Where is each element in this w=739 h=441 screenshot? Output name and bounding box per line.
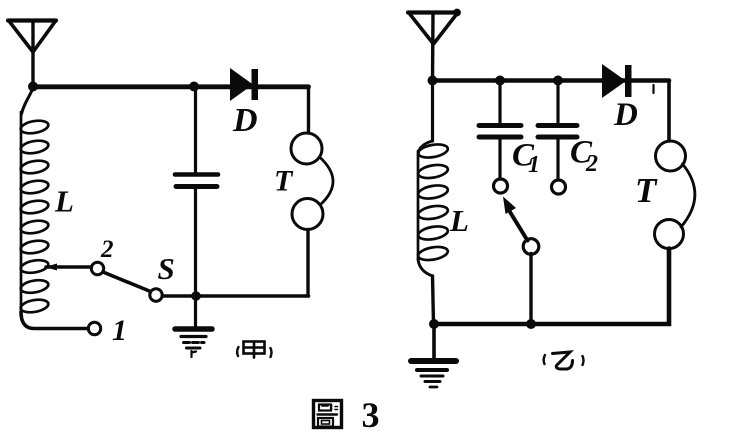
wire (selector pivot to bottom rail)	[529, 254, 532, 325]
label (甲)	[237, 342, 271, 358]
wire (headphones to bottom rail, right)	[434, 249, 669, 325]
node (C1 branch junction)	[495, 76, 505, 86]
svg-text:2: 2	[585, 151, 598, 177]
selector contact for C2	[552, 180, 566, 194]
ground (right)	[411, 361, 456, 387]
node (ground junction, right)	[429, 319, 439, 329]
label (乙)	[544, 352, 584, 369]
node (antenna/coil junction, right)	[428, 76, 438, 86]
wire (coil bottom to terminal 1)	[21, 312, 88, 329]
selector switch pivot (right)	[523, 239, 539, 255]
svg-text:3: 3	[362, 395, 380, 435]
switch S pivot contact	[150, 289, 162, 301]
wire (top rail down to C2)	[556, 81, 559, 123]
headphones T (right)	[655, 141, 695, 249]
label C1	[512, 138, 540, 179]
diode D (left)	[230, 68, 258, 101]
switch S contact 2	[91, 262, 103, 274]
label C2	[570, 135, 598, 178]
wire (headphones to bottom rail, left)	[306, 230, 309, 297]
svg-text:D: D	[613, 97, 638, 133]
headphones T (left)	[291, 133, 333, 230]
inductor L (right)	[417, 81, 449, 324]
node (antenna/coil junction)	[28, 82, 38, 92]
svg-text:D: D	[232, 102, 258, 139]
selector contact for C1	[494, 179, 508, 193]
inductor L (left)	[20, 88, 50, 314]
selector switch arm (right)	[503, 197, 528, 241]
capacitor C2	[538, 126, 577, 138]
antenna (left)	[8, 21, 56, 88]
wire (top rail down to C1)	[498, 81, 501, 123]
wire (top rail, left circuit)	[33, 84, 309, 89]
svg-text:2: 2	[100, 236, 114, 263]
wire (coil tap to switch contact 2)	[45, 264, 91, 271]
switch S arm	[103, 272, 151, 292]
terminal 1 (open contact)	[88, 322, 100, 334]
diode D (right)	[602, 64, 632, 98]
wire (diode to headphones, right top corner)	[654, 81, 670, 142]
antenna (right)	[408, 9, 460, 81]
wire (top rail, right circuit)	[432, 78, 669, 83]
node (C2 branch junction)	[553, 76, 563, 86]
wire (capacitor to ground, left)	[194, 189, 197, 327]
wire (switch pivot to bottom rail, left)	[163, 294, 309, 298]
svg-text:L: L	[54, 184, 74, 219]
wire (top rail down to capacitor, left)	[194, 87, 197, 173]
node (detector branch junction)	[189, 82, 199, 92]
wire (C2 to selector contact)	[556, 140, 559, 181]
node (selector/bottom rail junction)	[526, 319, 536, 329]
svg-text:T: T	[635, 171, 658, 210]
svg-text:T: T	[274, 165, 294, 198]
svg-text:1: 1	[112, 314, 127, 347]
ground (left)	[175, 329, 212, 357]
node (bottom rail / ground junction, left)	[191, 291, 201, 301]
svg-text:1: 1	[528, 152, 540, 178]
wire (diode to headphones, left top-right corner)	[307, 87, 310, 134]
wire (C1 to selector contact)	[498, 140, 501, 180]
svg-text:S: S	[158, 251, 175, 286]
caption character 圖	[314, 401, 342, 428]
capacitor C1	[479, 126, 521, 138]
svg-text:L: L	[449, 203, 469, 238]
wire (bottom rail to ground, right)	[432, 324, 436, 358]
capacitor (left, fixed)	[175, 175, 218, 187]
